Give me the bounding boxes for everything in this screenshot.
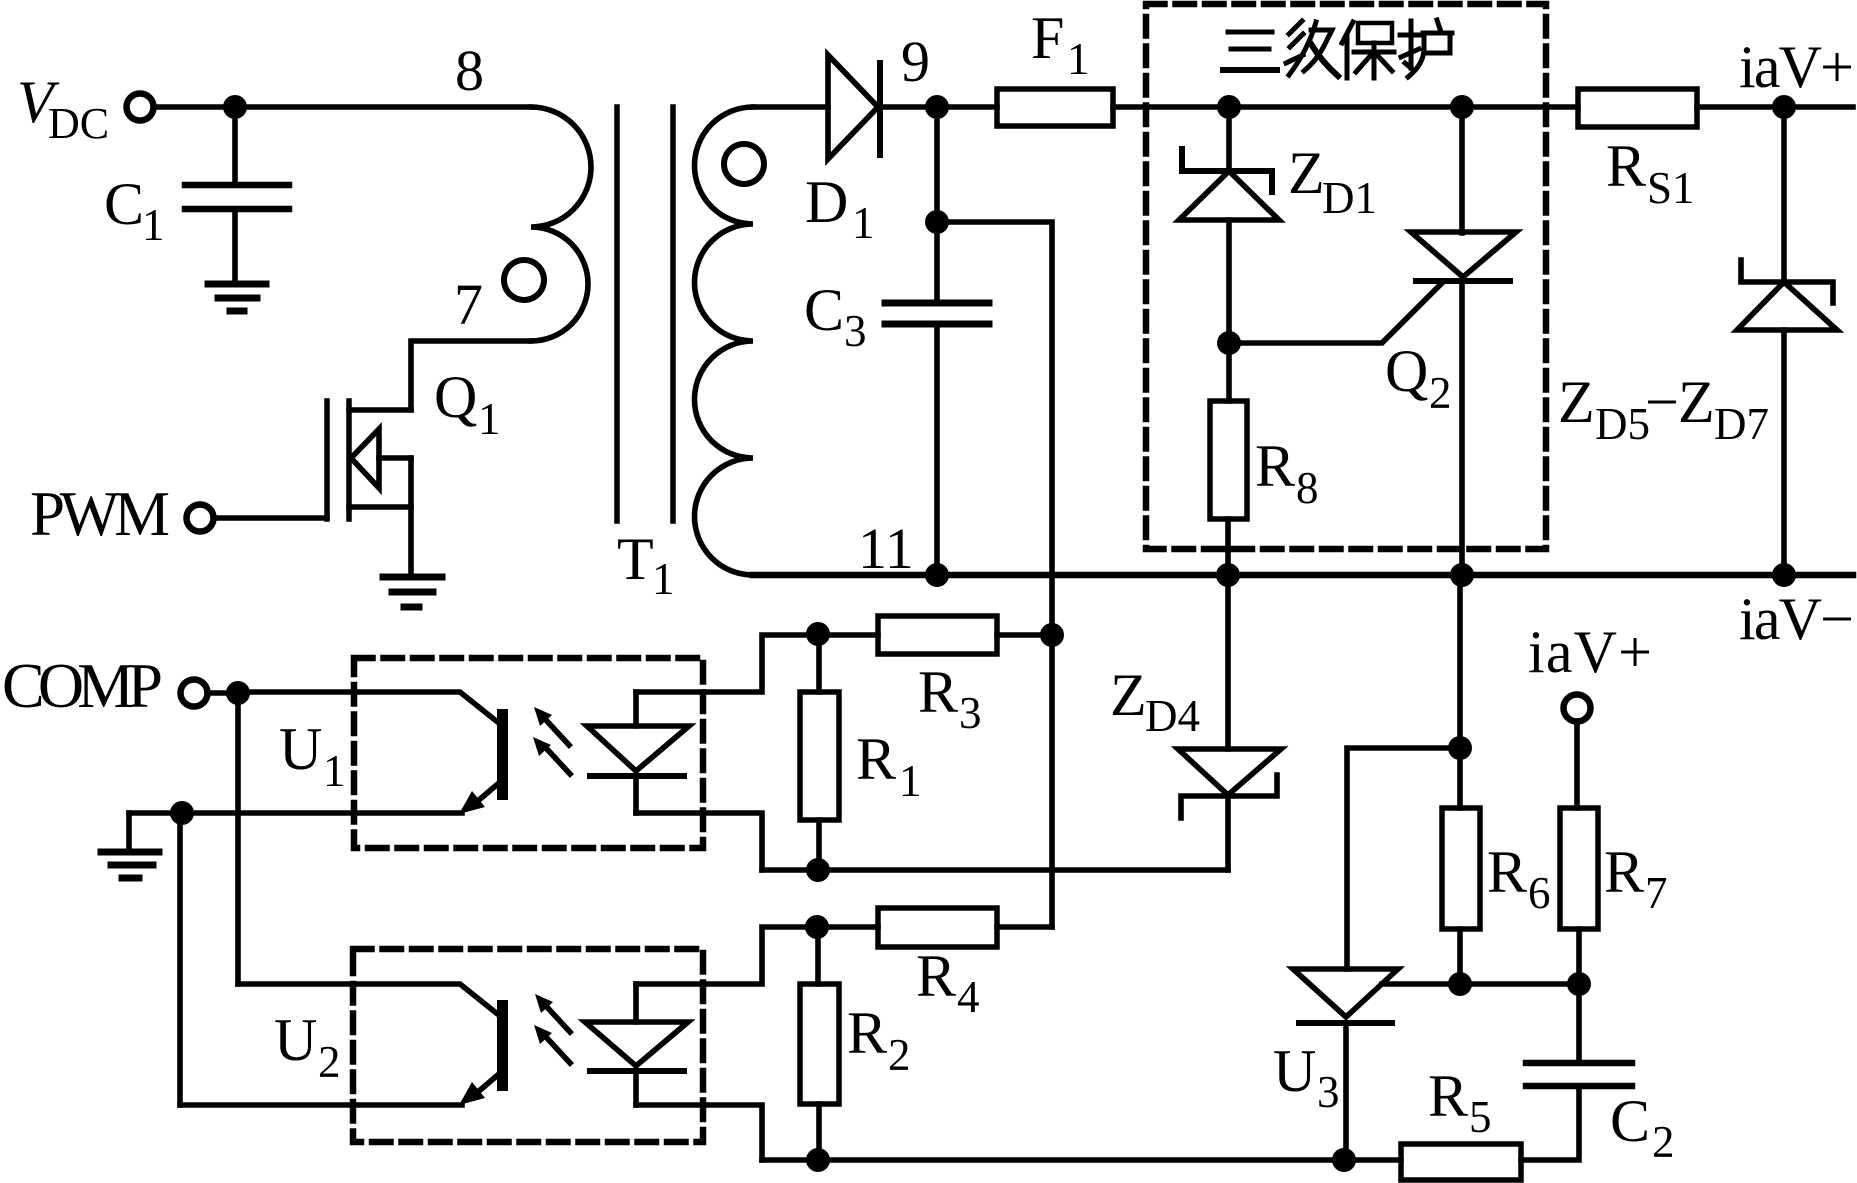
svg-text:1: 1 [478,394,501,444]
zener ZD4 [1178,575,1281,870]
resistor R3 [878,616,997,654]
label R3 [918,659,982,738]
thyristor Q2 [1229,107,1516,575]
wire ground net down to U2 emitter [177,813,183,1105]
svg-text:C: C [104,171,144,237]
diode D1 [828,55,880,159]
label R2 [847,1000,911,1080]
label F1 [1031,5,1090,84]
char hu [1400,20,1452,77]
U1 led [587,692,689,813]
node Q2 top [1450,95,1474,119]
node 11 [925,563,949,587]
svg-text:C: C [1610,1088,1650,1154]
node ground [170,801,194,825]
protection dashed box [1146,4,1546,549]
node R3 right [1040,623,1064,647]
svg-text:D7: D7 [1714,399,1769,449]
svg-text:−: − [1645,369,1679,435]
U2 led [585,984,688,1105]
svg-text:iaV+: iaV+ [1528,619,1652,685]
svg-text:1: 1 [652,554,675,604]
resistor R6 [1442,808,1480,929]
node 9 [925,95,949,119]
svg-text:2: 2 [1652,1117,1675,1167]
label ZD5-ZD7 [1558,369,1769,449]
svg-text:6: 6 [1528,868,1551,918]
char bao [1342,22,1394,78]
svg-text:3: 3 [1317,1067,1340,1117]
svg-text:Z: Z [1558,369,1595,435]
wire ground net [129,810,182,816]
label 11 [858,516,914,581]
node R2 bottom [806,1148,830,1172]
svg-text:1: 1 [899,756,922,806]
label 8 [455,38,484,103]
node R1 bottom [806,858,830,882]
label C1 [104,171,165,250]
svg-text:11: 11 [858,516,914,581]
label 9 [901,29,930,94]
wire COMP [207,690,238,696]
capacitor C3 [885,303,989,324]
wire iaV+ to R7 [1574,721,1580,808]
label U1 [279,716,346,796]
wire 7 to Q1 drain [411,341,531,410]
svg-text:D1: D1 [1322,173,1377,223]
svg-text:iaV−: iaV− [1739,586,1854,652]
svg-text:D4: D4 [1145,691,1200,741]
wire RS1 to edge [1697,104,1853,110]
svg-text:S1: S1 [1647,163,1695,213]
node Q2 rail [1450,563,1474,587]
wire R3 right [997,632,1052,638]
node ZD1 top [1217,95,1241,119]
terminal iaV+ mid [1564,695,1591,722]
wire R1 bottom row to ZD4 [762,867,1228,873]
svg-text:Z: Z [1288,140,1325,206]
node C1 tap [223,95,247,119]
svg-text:F: F [1031,5,1064,71]
label VDC [17,69,109,148]
ground COMP [126,813,132,849]
svg-text:1: 1 [852,198,875,248]
wire C1 bottom [232,212,238,281]
wire tap to R-net [937,222,1052,927]
title sanji baohu (drawn) [1223,20,1452,78]
svg-text:D: D [805,169,848,235]
svg-text:T: T [617,526,654,592]
label R8 [1255,433,1319,513]
primary phase dot [504,260,544,300]
node U3 anode [1332,1148,1356,1172]
zener ZD5-ZD7 [1737,107,1837,575]
label COMP [2,650,163,721]
label T1 [617,526,675,604]
node R4 left [805,915,829,939]
char san [1223,32,1277,70]
zener ZD1 [1179,107,1279,343]
svg-text:7: 7 [1645,868,1668,918]
svg-text:R: R [1255,433,1295,499]
wire D1 to F1 [880,104,997,110]
label iaV+ mid [1528,619,1652,685]
label Q1 [434,364,501,444]
label U3 [1273,1038,1340,1117]
svg-text:Q: Q [434,364,477,430]
node R3 left [806,622,830,646]
resistor R1 [816,635,822,692]
node R8 rail [1216,563,1240,587]
svg-text:Q: Q [1385,338,1428,404]
label PWM [30,479,170,549]
resistor R7 [1560,808,1598,929]
node iaV+ top [1772,95,1796,119]
node ZD1/R8/gate [1217,331,1241,355]
resistor R4 [878,908,997,947]
svg-text:R: R [1606,133,1646,199]
svg-text:4: 4 [957,972,980,1022]
resistor RS1 [1578,89,1697,127]
svg-text:PWM: PWM [30,479,170,549]
label R7 [1604,839,1668,918]
wire R4 right [997,924,1052,930]
node COMP [226,681,250,705]
transformer T1 primary winding [531,107,591,341]
label R1 [856,726,922,806]
label ZD4 [1110,662,1200,741]
svg-text:3: 3 [844,306,867,356]
label iaV+ top [1739,34,1854,100]
capacitor C2 [1526,1063,1632,1086]
wire COMP down to U2 [235,693,241,984]
wire C1 top [232,107,238,182]
svg-text:C: C [804,277,844,343]
svg-text:U: U [1273,1038,1316,1104]
transistor Q1 [327,401,411,572]
optocoupler U2 box [353,949,703,1142]
optocoupler U1 box [354,658,703,848]
rail iaV- [753,572,1853,579]
label R4 [916,943,980,1022]
resistor R5 [1401,1144,1521,1180]
svg-text:1: 1 [323,746,346,796]
svg-text:Z: Z [1110,662,1147,728]
label D1 [805,169,875,248]
svg-text:COMP: COMP [2,650,163,721]
label R5 [1428,1063,1492,1142]
wire node9 down [934,107,940,300]
label U2 [274,1007,341,1087]
wire F1 to RS1 [1113,104,1578,110]
resistor R2 [815,927,821,984]
U2 phototransistor [180,984,508,1105]
label ZD1 [1288,140,1377,223]
label C2 [1610,1088,1675,1167]
label C3 [804,277,867,356]
svg-text:5: 5 [1469,1092,1492,1142]
svg-text:7: 7 [454,272,483,337]
label 7 [454,272,483,337]
svg-text:R: R [1487,839,1527,905]
U2 light arrows [534,994,570,1063]
svg-text:9: 9 [901,29,930,94]
fuse F1 [997,89,1113,126]
svg-text:2: 2 [888,1030,911,1080]
terminal VDC [127,94,154,121]
svg-text:R: R [856,726,896,792]
node C3 tap [925,210,949,234]
secondary phase dot [724,144,764,184]
node R6 top [1448,736,1472,760]
node R7 bottom [1567,972,1591,996]
svg-text:3: 3 [959,688,982,738]
node R6 bottom [1448,972,1472,996]
node ZD5 rail [1772,563,1796,587]
svg-text:8: 8 [455,38,484,103]
label RS1 [1606,133,1695,213]
wire secondary to D1 [753,104,828,110]
label R6 [1487,839,1551,918]
terminal PWM [187,505,214,532]
svg-text:U: U [279,716,322,782]
svg-text:Z: Z [1678,369,1715,435]
shunt regulator U3 [1293,969,1579,1160]
svg-text:D5: D5 [1595,399,1650,449]
wire bottom row [762,1157,1401,1163]
wire U2 led anode to R4 row [636,927,878,984]
wire C2 top [1576,984,1582,1063]
label iaV- [1739,586,1854,652]
transformer T1 secondary winding [695,107,753,575]
wire R5 to C2 [1521,1086,1579,1160]
svg-text:R: R [916,943,956,1009]
capacitor C1 [185,185,289,209]
terminal COMP [181,680,208,707]
svg-text:2: 2 [1429,368,1452,418]
svg-text:iaV+: iaV+ [1739,34,1854,100]
wire U1 led anode to R3 row [636,635,878,692]
wire rail to R6 [1457,575,1463,808]
ground Q1 [383,577,442,607]
wire VDC to primary [154,104,531,110]
resistor R8 [1226,343,1232,401]
U1 light arrows [533,707,570,774]
svg-text:2: 2 [318,1037,341,1087]
wire PWM to gate [214,515,327,521]
svg-text:8: 8 [1296,463,1319,513]
label Q2 [1385,338,1452,418]
svg-text:R: R [847,1000,887,1066]
svg-text:U: U [274,1007,317,1073]
char ji [1286,21,1338,76]
svg-text:R: R [1428,1063,1468,1129]
svg-text:R: R [918,659,958,725]
transformer T1 core [614,107,620,521]
wire C3 to node 11 [934,326,940,575]
wire U2 led cathode to bottom rail [636,1105,762,1160]
svg-text:1: 1 [142,200,165,250]
U1 phototransistor [182,692,508,814]
svg-text:1: 1 [1067,34,1090,84]
ground C1 [208,284,266,311]
svg-text:DC: DC [48,99,109,148]
svg-text:R: R [1604,839,1644,905]
wire to U3 cathode [1347,748,1460,969]
wire U1 led cathode to R1 bottom row [636,813,762,870]
